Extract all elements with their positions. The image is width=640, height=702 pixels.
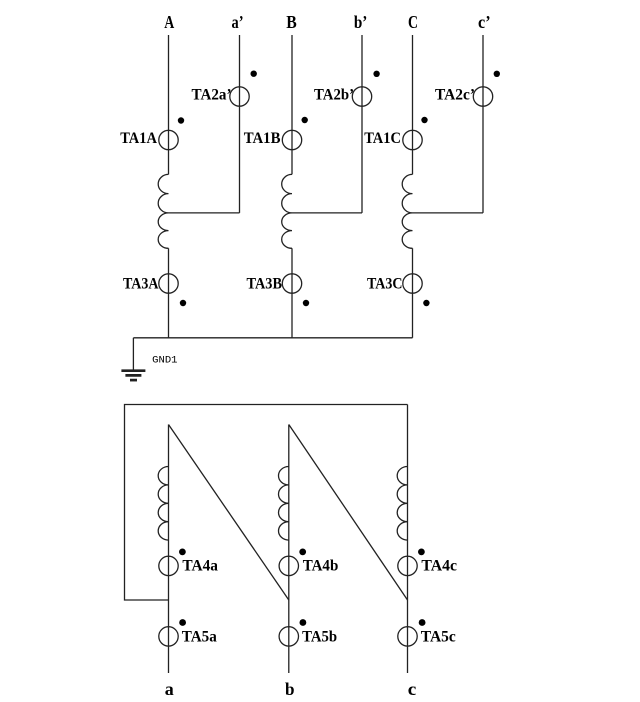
- svg-text:a’: a’: [232, 12, 244, 32]
- wire phase A vertical lower: [168, 248, 170, 337]
- svg-text:TA2a’: TA2a’: [192, 87, 232, 104]
- svg-text:A: A: [164, 12, 174, 32]
- svg-text:TA2b’: TA2b’: [314, 87, 354, 104]
- wire phase C vertical lower: [412, 248, 414, 337]
- winding secondary a: [158, 467, 168, 541]
- wire neutral bus: [133, 337, 412, 339]
- wire ground drop: [132, 338, 134, 370]
- CT TA2b': [352, 87, 371, 106]
- wire secondary delta top: [125, 405, 408, 601]
- svg-text:TA1C: TA1C: [364, 130, 401, 147]
- CT TA4b: [279, 556, 298, 575]
- wire secondary a vertical: [168, 425, 170, 674]
- svg-text:a: a: [165, 679, 174, 699]
- polarity dot TA1C: [421, 117, 427, 123]
- CT TA5c: [398, 627, 417, 646]
- winding secondary b: [278, 467, 288, 541]
- CT TA3B: [282, 274, 301, 293]
- svg-text:c: c: [408, 679, 417, 699]
- svg-text:TA1B: TA1B: [244, 130, 281, 147]
- CT TA5b: [279, 627, 298, 646]
- polarity dot TA3B: [303, 300, 309, 306]
- CT TA4a: [159, 556, 178, 575]
- svg-text:TA1A: TA1A: [120, 130, 157, 147]
- CT TA2c': [473, 87, 492, 106]
- CT TA3C: [403, 274, 422, 293]
- svg-text:TA4c: TA4c: [421, 558, 457, 575]
- svg-text:b: b: [285, 679, 295, 699]
- polarity dot TA4a: [179, 549, 186, 556]
- polarity dot TA1B: [302, 117, 308, 123]
- CT TA4c: [398, 556, 417, 575]
- winding phase B: [282, 174, 292, 248]
- svg-text:TA3A: TA3A: [123, 275, 159, 292]
- polarity dot TA4c: [418, 549, 425, 556]
- CT TA3A: [159, 274, 178, 293]
- wire tap a' to coil A: [169, 212, 240, 214]
- svg-text:TA5a: TA5a: [182, 628, 217, 645]
- svg-text:TA5c: TA5c: [421, 628, 456, 645]
- wire tap b' to coil B: [292, 212, 362, 214]
- wire c' vertical: [482, 35, 484, 213]
- svg-text:TA3B: TA3B: [247, 275, 283, 292]
- polarity dot TA5a: [179, 619, 186, 626]
- svg-text:b’: b’: [354, 12, 368, 32]
- wire delta diagonal a-b: [169, 425, 289, 601]
- winding phase A (autotransformer coil): [158, 174, 168, 248]
- polarity dot TA5c: [419, 619, 426, 626]
- wire secondary c vertical: [407, 405, 409, 674]
- polarity dot TA4b: [299, 549, 306, 556]
- svg-text:TA2c’: TA2c’: [435, 87, 475, 104]
- wire phase B vertical lower: [291, 248, 293, 337]
- polarity dot TA3C: [423, 300, 429, 306]
- CT TA5a: [159, 627, 178, 646]
- svg-text:TA4b: TA4b: [303, 558, 339, 575]
- CT TA2a': [230, 87, 249, 106]
- svg-text:TA5b: TA5b: [302, 628, 337, 645]
- wire phase C vertical upper: [412, 35, 414, 174]
- wire b' vertical: [361, 35, 363, 213]
- ground GND1: [121, 371, 145, 380]
- polarity dot TA2b': [373, 71, 379, 77]
- svg-text:c’: c’: [478, 12, 491, 32]
- winding secondary c: [397, 467, 407, 541]
- svg-text:B: B: [286, 12, 297, 32]
- CT TA1C: [403, 130, 422, 149]
- winding phase C: [402, 174, 412, 248]
- CT TA1A: [159, 130, 178, 149]
- polarity dot TA1A: [178, 117, 184, 123]
- svg-text:GND1: GND1: [152, 355, 177, 367]
- wire secondary b vertical: [288, 425, 290, 674]
- wire phase A vertical upper: [168, 35, 170, 174]
- svg-text:TA4a: TA4a: [182, 558, 218, 575]
- CT TA1B: [282, 130, 301, 149]
- polarity dot TA3A: [180, 300, 186, 306]
- wire delta diagonal b-c: [289, 425, 408, 601]
- svg-text:TA3C: TA3C: [367, 275, 403, 292]
- svg-text:C: C: [408, 12, 418, 32]
- polarity dot TA5b: [300, 619, 307, 626]
- polarity dot TA2c': [494, 71, 500, 77]
- wire phase B vertical upper: [291, 35, 293, 174]
- wire tap c' to coil C: [413, 212, 484, 214]
- wire a' vertical: [239, 35, 241, 213]
- polarity dot TA2a': [251, 71, 257, 77]
